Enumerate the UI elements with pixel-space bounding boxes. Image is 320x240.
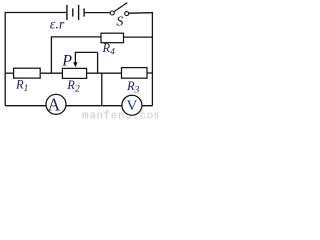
wire left edge	[4, 12, 6, 106]
svg-text:ε.r: ε.r	[50, 18, 65, 33]
resistor R2 (rheostat)	[62, 68, 86, 78]
switch S	[110, 3, 129, 16]
resistor R1	[14, 68, 41, 78]
wire slider to junction	[75, 52, 98, 73]
svg-text:A: A	[48, 94, 61, 114]
voltmeter V	[122, 95, 142, 115]
wire battery to switch	[85, 12, 110, 14]
wire switch to top-right corner	[129, 12, 153, 15]
ammeter A	[46, 94, 66, 114]
wire R3 to right edge	[147, 72, 152, 74]
svg-text:V: V	[126, 98, 137, 114]
svg-text:manfen5.com: manfen5.com	[82, 110, 159, 121]
wire bottom	[5, 105, 152, 107]
wire row left	[5, 72, 13, 74]
svg-text:S: S	[116, 15, 123, 30]
battery cells ε,r	[67, 5, 84, 20]
wire R4 to right edge	[124, 36, 153, 38]
wire R2 to R3	[87, 72, 122, 74]
wire R4 branch left vertical	[50, 37, 52, 73]
wire top-left from corner to battery	[5, 12, 66, 14]
resistor R4	[101, 33, 124, 43]
resistor R3	[122, 68, 148, 79]
wire R4 branch horizontal left	[51, 36, 101, 38]
wire junction down to bottom	[101, 73, 103, 106]
rheostat slider arrow P	[73, 52, 77, 67]
wire right edge	[151, 12, 153, 106]
wire R1 to R2	[40, 72, 62, 74]
svg-text:P: P	[61, 52, 72, 69]
